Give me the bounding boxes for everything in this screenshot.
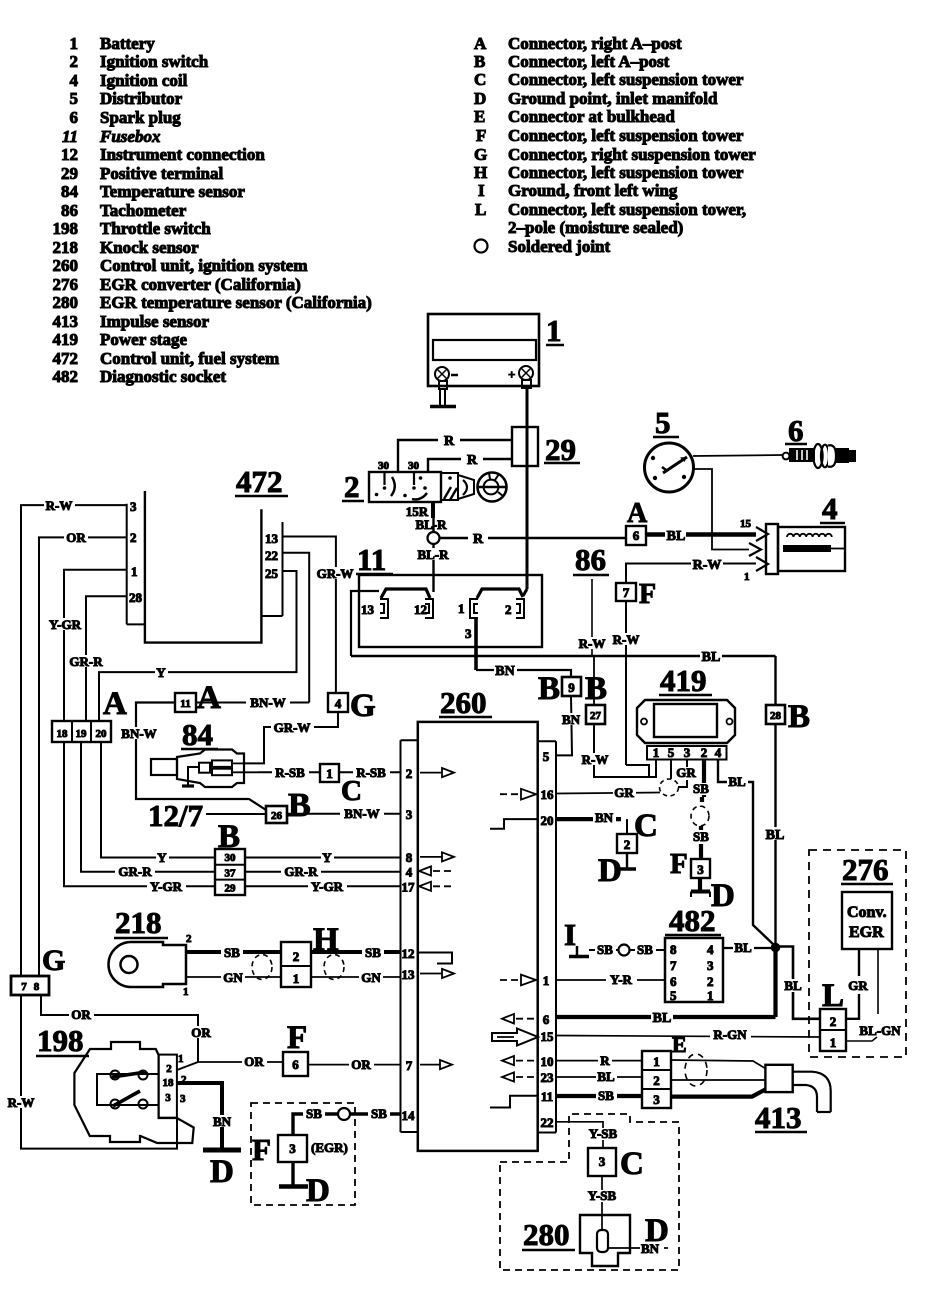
svg-text:GR-W: GR-W: [274, 720, 311, 735]
svg-text:Connector, left suspension tow: Connector, left suspension tower: [508, 126, 744, 145]
svg-text:1: 1: [293, 971, 300, 986]
svg-text:A: A: [627, 498, 648, 529]
svg-text:Connector, left A–post: Connector, left A–post: [508, 52, 670, 71]
svg-text:2: 2: [70, 52, 79, 71]
svg-text:F: F: [476, 126, 486, 145]
wire GR-R from B cell 37 to 260 pin 4: [245, 864, 401, 879]
svg-text:6: 6: [70, 108, 79, 127]
svg-text:SB: SB: [365, 945, 381, 960]
svg-text:R-W: R-W: [8, 1095, 35, 1110]
svg-text:482: 482: [669, 903, 716, 938]
svg-text:I: I: [564, 917, 576, 952]
wire OR from F box 6 to 260 pin 7: [308, 1057, 401, 1072]
wire battery positive down to terminal 29 and fusebox: [526, 388, 529, 589]
wire R-W from G cell 7 down to throttle switch pin 3: [6, 994, 177, 1149]
svg-text:BN: BN: [562, 712, 581, 727]
svg-text:7: 7: [21, 981, 27, 993]
svg-text:EGR: EGR: [849, 924, 884, 941]
battery negative terminal bolt: [435, 367, 458, 389]
svg-text:419: 419: [53, 330, 79, 349]
svg-text:13: 13: [402, 967, 416, 982]
svg-text:GR-R: GR-R: [284, 864, 318, 879]
svg-text:30: 30: [378, 460, 390, 472]
wire distributor to spark plug: [693, 455, 782, 456]
EGR converter dashed enclosure 276: [809, 850, 906, 1057]
shield symbol right of connector H: [324, 955, 344, 980]
svg-text:OR: OR: [191, 1025, 211, 1040]
svg-text:SB: SB: [598, 1088, 614, 1103]
svg-text:Ignition switch: Ignition switch: [100, 52, 209, 71]
wire BN-W from 472 pin 22 to A box 11: [196, 695, 309, 710]
svg-text:3: 3: [599, 1154, 606, 1169]
svg-text:R-W: R-W: [693, 558, 722, 573]
throttle switch lower contact (open): [111, 1091, 148, 1109]
svg-text:B: B: [538, 671, 560, 707]
svg-text:260: 260: [53, 256, 79, 275]
wire SB from F box 3 (EGR) to 260 pin 14 with soldered joint: [293, 1106, 401, 1135]
ground at temperature sensor 84: [182, 767, 199, 786]
fusebox terminal 3 output wire BN: [465, 618, 571, 679]
svg-text:BN: BN: [495, 664, 514, 679]
svg-text:18: 18: [57, 728, 69, 740]
shield circle on SB wire: [691, 806, 709, 826]
svg-text:Y-GR: Y-GR: [311, 879, 344, 894]
battery positive terminal bolt: [508, 366, 533, 388]
svg-text:Soldered joint: Soldered joint: [508, 237, 611, 256]
wire GR from Conv EGR to connector L pin 2: [846, 949, 868, 1019]
shield circle on 413 cable: [685, 1054, 707, 1086]
fusebox terminal 1: [458, 599, 478, 618]
svg-text:2–pole (moisture sealed): 2–pole (moisture sealed): [508, 218, 683, 237]
wire Y from A cell 20 to connector B cell 30: [101, 742, 215, 865]
svg-text:4: 4: [707, 942, 714, 957]
svg-text:GR: GR: [614, 785, 634, 800]
connector A box 11: [175, 680, 221, 716]
wire BN from 260 pin 20 to connector C box 2: [556, 810, 627, 834]
wire GR from 419 pin 3: [676, 760, 696, 788]
260 pin 2 internal arrow: [420, 768, 454, 777]
wire BL from junction down to connector L pin 2: [779, 947, 820, 1019]
wire from fusebox terminal 13 to left and down to main R-W bus: [351, 591, 379, 656]
wire GR from 419 pin 5 to connector circle: [670, 760, 672, 780]
svg-text:4: 4: [822, 491, 838, 526]
power stage 419: [637, 663, 735, 760]
svg-text:8: 8: [670, 942, 677, 957]
svg-text:Connector, left suspension tow: Connector, left suspension tower: [508, 70, 744, 89]
control unit fuel system 472: [127, 464, 288, 643]
svg-text:15: 15: [541, 1029, 555, 1044]
svg-text:R-W: R-W: [582, 752, 609, 767]
wire R-GN from 260 pin 15 to connector L pin 1: [556, 1027, 820, 1042]
260 right pin numbers: [541, 749, 555, 1130]
svg-text:1: 1: [546, 313, 562, 348]
svg-text:276: 276: [53, 275, 79, 294]
svg-text:419: 419: [660, 663, 707, 698]
svg-text:GR: GR: [676, 765, 696, 780]
svg-text:6: 6: [670, 974, 677, 989]
svg-text:2: 2: [505, 602, 512, 617]
fusebox 11: [356, 542, 542, 647]
svg-text:Distributor: Distributor: [100, 89, 183, 108]
wire R-W from connector F-7 down to power stage pin 1: [612, 601, 649, 777]
wire R-SB from 84 to connector C box 1: [258, 765, 320, 780]
svg-text:2: 2: [406, 766, 413, 781]
260 pin 16 internal arrow: [500, 789, 536, 800]
svg-text:G: G: [474, 145, 487, 164]
wire SB connector H to 260 pin 12: [311, 945, 401, 960]
svg-text:1: 1: [653, 745, 660, 760]
wire R from 260 pin 10 to connector E pin 1: [556, 1053, 642, 1068]
wire GN knock sensor to connector H: [186, 970, 281, 985]
temperature sensor 84: [151, 717, 258, 787]
svg-text:6: 6: [543, 1012, 550, 1027]
svg-text:5: 5: [70, 89, 79, 108]
control unit ignition system 260: [401, 685, 557, 1151]
wire SB ground I to 482 pin 8 with soldered joint: [589, 942, 665, 957]
wire Y from 472 pin 25 down around to connector A cell 20: [99, 571, 297, 721]
svg-text:BL: BL: [667, 529, 686, 544]
wire SB from 260 pin 11 to connector E pin 3: [556, 1088, 642, 1103]
svg-text:29: 29: [61, 164, 78, 183]
svg-text:29: 29: [225, 883, 237, 895]
svg-text:E: E: [474, 107, 485, 126]
svg-text:11: 11: [357, 542, 386, 577]
svg-text:Conv.: Conv.: [847, 904, 887, 921]
wire OR from G cell 8 to throttle switch pin 2 node: [41, 994, 213, 1070]
svg-text:Connector, left suspension tow: Connector, left suspension tower: [508, 163, 744, 182]
throttle switch upper contact (closed): [111, 1071, 148, 1080]
wire BL thick from 260 pin 6 up to junction: [556, 947, 776, 1026]
svg-text:4: 4: [335, 696, 342, 711]
svg-text:2: 2: [293, 949, 300, 964]
260 pin 11 internal symbol: [490, 1096, 537, 1108]
connector B box 27: [580, 656, 610, 767]
wire GR from connector circle to 260 pin 16: [556, 785, 660, 800]
svg-text:GN: GN: [223, 970, 243, 985]
instrument connection 12/7: [148, 798, 266, 833]
impulse sensor 413 connector and elbow: [755, 1065, 831, 1135]
svg-text:5: 5: [670, 988, 677, 1003]
wire BN from throttle switch pin 18 to ground: [177, 1083, 234, 1148]
svg-text:D: D: [598, 853, 622, 889]
svg-text:Diagnostic socket: Diagnostic socket: [100, 367, 226, 386]
260 pin 7 internal arrow: [420, 1060, 452, 1069]
svg-text:8: 8: [406, 850, 413, 865]
svg-text:5: 5: [543, 749, 550, 764]
svg-text:A: A: [474, 34, 487, 53]
svg-text:Spark plug: Spark plug: [100, 108, 181, 127]
svg-text:7: 7: [623, 585, 630, 600]
svg-text:I: I: [478, 181, 485, 200]
soldered joint on SB wire to pin 14: [338, 1108, 350, 1120]
svg-text:B: B: [474, 52, 485, 71]
svg-text:SB: SB: [371, 1106, 387, 1121]
svg-text:D: D: [210, 1154, 234, 1190]
svg-text:14: 14: [402, 1108, 416, 1123]
impulse sensor 413 cable: [671, 1060, 765, 1097]
svg-text:1: 1: [178, 1053, 184, 1065]
EGR temperature sensor 280: [522, 1213, 669, 1266]
svg-text:BN-W: BN-W: [121, 726, 156, 741]
svg-text:Y: Y: [156, 665, 166, 680]
svg-text:1: 1: [183, 986, 189, 998]
260 pin 12 internal symbol: [418, 953, 452, 964]
wire R from terminal 29 to ignition switch 30 (lower): [428, 452, 512, 472]
svg-text:10: 10: [541, 1054, 554, 1069]
connector C box 3: [588, 1146, 644, 1182]
svg-text:Instrument connection: Instrument connection: [100, 145, 265, 164]
svg-text:Throttle switch: Throttle switch: [100, 219, 211, 238]
svg-text:SB: SB: [637, 942, 653, 957]
svg-text:Connector, right suspension to: Connector, right suspension tower: [508, 145, 756, 164]
svg-text:2: 2: [707, 974, 714, 989]
connector F box 6: [283, 1020, 308, 1076]
connector A box 6 (to ignition coil): [626, 498, 648, 545]
wire Y-GR from A cell 18 to connector B cell 29: [64, 742, 215, 894]
connector G box 4: [328, 688, 376, 724]
svg-text:R: R: [444, 434, 455, 449]
svg-text:Y: Y: [322, 850, 332, 865]
junction dot BL: [771, 943, 781, 953]
svg-text:Ground, front left wing: Ground, front left wing: [508, 181, 678, 200]
svg-text:A: A: [103, 686, 127, 722]
svg-text:84: 84: [61, 182, 79, 201]
svg-text:482: 482: [53, 367, 79, 386]
svg-text:BL: BL: [734, 940, 752, 955]
svg-text:84: 84: [182, 717, 213, 752]
260 pin 15 internal block arrow: [492, 1029, 538, 1046]
svg-text:1: 1: [830, 1035, 837, 1050]
connector F box 7: [616, 579, 656, 610]
svg-text:1: 1: [744, 571, 750, 583]
svg-text:1: 1: [131, 564, 138, 579]
svg-text:Control unit, ignition system: Control unit, ignition system: [100, 256, 308, 275]
svg-text:2: 2: [624, 837, 631, 852]
svg-text:Y-GR: Y-GR: [49, 617, 82, 632]
diagnostic socket 482: [665, 903, 723, 1003]
distributor 5: [645, 405, 694, 492]
svg-text:86: 86: [575, 542, 606, 577]
connector B strip 30 37 29: [215, 819, 245, 895]
svg-text:12/7: 12/7: [148, 798, 203, 833]
wire distributor to ignition coil secondary: [693, 469, 749, 550]
svg-text:BN: BN: [595, 810, 614, 825]
svg-text:12: 12: [402, 946, 415, 961]
wire Y from B cell 30 to 260 pin 8: [245, 850, 401, 865]
svg-text:OR: OR: [71, 1007, 91, 1022]
legend right column: [474, 34, 756, 256]
260 pin 1 internal arrow: [500, 975, 536, 986]
wire Y-R from 260 pin 1 to 482 pin 6: [556, 972, 665, 987]
svg-text:GR: GR: [848, 978, 868, 993]
260 pin 17 internal arrow: [419, 882, 455, 891]
wire GR-W from G box 4 down to temperature sensor 84: [245, 712, 338, 763]
svg-text:SB: SB: [306, 1106, 322, 1121]
connector A strip 18 19 20: [52, 686, 127, 742]
svg-text:BL-R: BL-R: [417, 547, 449, 562]
svg-text:3: 3: [653, 1092, 660, 1107]
svg-text:L: L: [475, 200, 486, 219]
260 pin 8 internal arrow: [420, 852, 454, 861]
svg-text:BL-GN: BL-GN: [859, 1023, 901, 1038]
svg-text:198: 198: [37, 1023, 84, 1058]
svg-text:2: 2: [701, 745, 708, 760]
svg-text:D: D: [645, 1213, 669, 1249]
svg-text:+: +: [508, 367, 515, 382]
svg-text:G: G: [350, 688, 376, 724]
260 pin 20 internal symbol: [490, 819, 537, 829]
svg-text:C: C: [620, 1146, 644, 1182]
ignition switch 2: [342, 460, 507, 504]
positive terminal 29: [512, 427, 580, 467]
svg-text:3: 3: [406, 807, 413, 822]
svg-text:C: C: [474, 70, 486, 89]
wire R from soldered joint to connector A box 6: [440, 531, 627, 547]
ground D below F box 3 (EGR): [279, 1162, 330, 1209]
svg-text:Y-R: Y-R: [610, 972, 633, 987]
svg-text:15: 15: [740, 518, 752, 530]
svg-text:OR: OR: [66, 530, 86, 545]
svg-text:Y-SB: Y-SB: [588, 1188, 617, 1203]
svg-text:G: G: [42, 944, 65, 977]
wire Y-GR from 472 pin 1 to connector A cell 18: [46, 570, 127, 721]
svg-text:GN: GN: [361, 970, 381, 985]
connector G box 7/8: [11, 944, 65, 995]
svg-text:28: 28: [129, 590, 143, 605]
svg-text:Connector, left suspension tow: Connector, left suspension tower,: [508, 200, 746, 219]
svg-text:GR-R: GR-R: [69, 654, 103, 669]
main bus wire R-W / BL from fusebox to right: [351, 649, 776, 665]
connector F box 3 (EGR): [252, 1132, 348, 1167]
svg-text:1: 1: [653, 1054, 660, 1069]
wire BL from 419 pin 4 to junction: [718, 760, 774, 946]
throttle switch 198: [36, 1023, 194, 1143]
260 left pin numbers: [402, 766, 416, 1123]
wire BL bus down through B box 28 to junction: [764, 656, 786, 943]
ground D below F box 3: [691, 878, 735, 914]
wire R-SB from C box 1 to 260 pin 2: [339, 765, 401, 780]
svg-text:4: 4: [406, 865, 413, 880]
svg-text:B: B: [788, 699, 810, 735]
wire BN-W from 472 pin 22 down to connector A box 11: [283, 553, 310, 703]
svg-text:Y-GR: Y-GR: [150, 879, 183, 894]
svg-text:25: 25: [265, 566, 279, 581]
svg-text:11: 11: [62, 127, 78, 146]
fusebox terminal 2: [505, 599, 524, 618]
shield symbol left of connector H: [252, 955, 272, 980]
ground D below throttle switch: [203, 1150, 241, 1190]
svg-text:Impulse sensor: Impulse sensor: [100, 312, 210, 331]
wire Y-SB from C box 3 to sensor 280: [585, 1176, 620, 1218]
svg-text:F: F: [287, 1020, 307, 1056]
svg-text:R-SB: R-SB: [356, 765, 386, 780]
svg-text:R: R: [473, 532, 484, 547]
wire OR from 472 pin 2 down left side: [39, 530, 127, 977]
svg-text:9: 9: [568, 680, 575, 695]
svg-text:3: 3: [180, 1093, 186, 1105]
tachometer 86: [573, 542, 609, 656]
svg-text:413: 413: [53, 312, 79, 331]
fusebox terminal 12: [414, 599, 433, 618]
svg-text:13: 13: [361, 602, 375, 617]
EGR dashed enclosure (left): [251, 1103, 355, 1205]
svg-text:SB: SB: [597, 942, 613, 957]
svg-text:3: 3: [697, 862, 704, 877]
svg-text:BL: BL: [728, 774, 746, 789]
svg-text:OR: OR: [351, 1057, 371, 1072]
wire OR from switch node to connector F box 6: [198, 1054, 283, 1069]
260 pin 10 internal arrow: [502, 1056, 537, 1065]
svg-text:198: 198: [53, 219, 79, 238]
svg-text:2: 2: [130, 530, 137, 545]
wire GR-W from 472 pin 13 down to connector G box 4: [283, 537, 357, 694]
ground I at 482: [564, 917, 589, 957]
connector H box 2/1: [281, 922, 339, 987]
svg-text:17: 17: [402, 880, 416, 895]
connector C box 2: [617, 808, 658, 853]
svg-text:2: 2: [186, 933, 192, 945]
svg-text:R-W: R-W: [46, 498, 73, 513]
connector B box 9: [538, 671, 581, 707]
wire BL from 482 pin 4 to junction: [723, 940, 771, 955]
wire GR-R from A cell 19 to connector B cell 37: [81, 742, 215, 879]
wire BL from connector A-6 to ignition coil terminal 15: [646, 518, 756, 544]
EGR converter 276: [841, 852, 893, 949]
svg-text:Y-SB: Y-SB: [589, 1126, 618, 1141]
svg-text:20: 20: [96, 728, 108, 740]
svg-text:B: B: [585, 671, 607, 707]
svg-text:1: 1: [70, 34, 79, 53]
260 pin 23 internal arrow: [502, 1072, 537, 1081]
svg-text:BN-W: BN-W: [344, 806, 379, 821]
legend left column: [53, 34, 372, 386]
svg-text:3: 3: [130, 499, 137, 514]
svg-text:12: 12: [61, 145, 78, 164]
260 pin 13 internal arrow: [420, 969, 454, 978]
svg-text:218: 218: [53, 238, 79, 257]
spark plug 6: [783, 413, 856, 468]
fuse between terminals 13 and 12: [381, 589, 430, 598]
soldered joint on BL-R wire: [428, 532, 440, 544]
svg-text:BL: BL: [766, 828, 785, 843]
svg-text:F: F: [670, 848, 688, 880]
wire BL-R ignition switch to fusebox 12: [415, 517, 452, 592]
svg-text:Connector, right A–post: Connector, right A–post: [508, 34, 682, 53]
svg-text:Positive terminal: Positive terminal: [100, 164, 223, 183]
svg-text:Knock sensor: Knock sensor: [100, 238, 199, 257]
wire R-W from 472 pin 3 down left side: [21, 498, 127, 977]
knock sensor 218: [109, 905, 193, 998]
connector F box 3: [670, 848, 710, 880]
svg-text:260: 260: [440, 685, 487, 720]
svg-text:SB: SB: [693, 829, 709, 844]
soldered joint on SB wire at 482: [619, 945, 630, 956]
svg-text:2: 2: [166, 1063, 172, 1075]
svg-text:4: 4: [715, 745, 722, 760]
svg-text:R: R: [600, 1053, 610, 1068]
260 pin 4 internal arrow: [419, 866, 455, 875]
svg-text:BL: BL: [597, 1069, 615, 1084]
svg-text:20: 20: [541, 813, 554, 828]
svg-text:BL: BL: [784, 978, 802, 993]
svg-text:4: 4: [70, 71, 79, 90]
ignition coil 4: [749, 491, 845, 574]
svg-text:Y: Y: [157, 850, 167, 865]
svg-text:Temperature sensor: Temperature sensor: [100, 182, 245, 201]
svg-text:23: 23: [541, 1070, 555, 1085]
svg-text:BN: BN: [213, 1114, 232, 1129]
wire GN connector H to 260 pin 13: [311, 970, 401, 985]
